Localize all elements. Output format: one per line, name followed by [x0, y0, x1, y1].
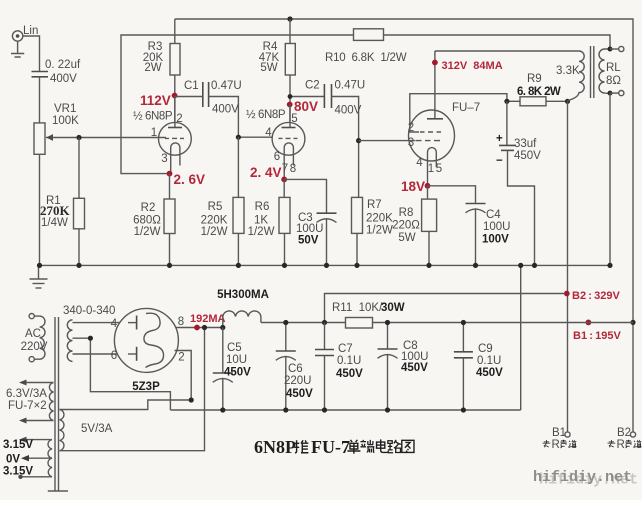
node dot R1 top — [76, 135, 81, 140]
svg-text:400V: 400V — [335, 105, 362, 117]
svg-text:R7: R7 — [367, 199, 382, 211]
svg-text:B1: B1 — [552, 427, 566, 439]
wire: jack to input capacitor — [23, 36, 40, 71]
svg-text:R2: R2 — [141, 202, 156, 214]
wire: C1 to V2 grid and R5 — [209, 97, 273, 138]
wire: V1 plate to C1 — [175, 96, 203, 98]
svg-text:hifidiy.net: hifidiy.net — [533, 469, 632, 486]
3.15V heater winding with 0V center tap — [3, 437, 52, 479]
svg-text:R11 10K/: R11 10K/ — [332, 302, 383, 314]
svg-text:8: 8 — [290, 163, 296, 175]
node dot R8 ground — [426, 263, 431, 268]
wire: 5Z3P pin 2 to 5V winding top — [60, 351, 192, 410]
main ground rail of amplifier section — [39, 264, 611, 266]
svg-text:0.1U: 0.1U — [477, 355, 501, 367]
svg-text:3.15V: 3.15V — [3, 439, 33, 451]
svg-text:Lin: Lin — [23, 25, 38, 37]
svg-text:2W: 2W — [144, 62, 161, 74]
node B2 329V — [564, 291, 570, 297]
svg-text:C7: C7 — [338, 343, 353, 355]
ground symbol under left end of ground rail — [30, 265, 48, 288]
capacitor C2 0.47U 400V — [305, 80, 365, 117]
rail A : B1 supply rail to preamp, corners down as right border — [175, 19, 633, 432]
svg-text:1: 1 — [428, 163, 434, 175]
svg-text:450V: 450V — [336, 368, 363, 380]
wire: HV center tap to PSU ground rail — [73, 338, 171, 410]
choke 5H300MA — [217, 289, 269, 328]
svg-text:C6: C6 — [288, 363, 303, 375]
svg-text:450V: 450V — [401, 362, 428, 374]
PSU ground rail — [170, 409, 520, 411]
HV secondary winding 340-0-340 — [63, 305, 115, 361]
wire: primary top lead from FU-7 plate — [435, 50, 579, 52]
svg-text:1/2W: 1/2W — [134, 226, 161, 238]
svg-text:+: + — [496, 133, 503, 145]
B1 rail with R11 — [261, 322, 633, 324]
svg-text:4: 4 — [416, 157, 423, 169]
svg-text:1/2W: 1/2W — [366, 225, 393, 237]
svg-text:4: 4 — [265, 127, 272, 139]
watermark hifidiy.net — [533, 469, 638, 489]
svg-text:C2: C2 — [305, 80, 320, 92]
rectifier 5Z3P — [111, 308, 185, 393]
svg-text:B2 : 329V: B2 : 329V — [572, 290, 620, 302]
wire: HV bottom to 5Z3P plate pin 6 — [73, 353, 118, 355]
svg-text:1/2W: 1/2W — [201, 226, 228, 238]
svg-text:33uf: 33uf — [514, 138, 537, 150]
svg-text:0.1U: 0.1U — [337, 355, 361, 367]
svg-text:220K: 220K — [201, 215, 228, 227]
svg-text:450V: 450V — [286, 388, 313, 400]
svg-text:270K: 270K — [40, 203, 71, 218]
svg-text:R8: R8 — [399, 207, 414, 219]
node dot R9 left / 33uf top — [504, 99, 509, 104]
wire: secondary bottom to ground rail — [609, 93, 611, 265]
wire: V2 plate to C2 — [290, 96, 324, 98]
wire: HV top to 5Z3P plate pin 4 — [73, 322, 121, 324]
svg-text:0. 22uf: 0. 22uf — [45, 59, 81, 71]
svg-text:112V: 112V — [140, 93, 171, 108]
node dot pin2 corner — [189, 397, 194, 402]
node dot R2 ground — [167, 263, 172, 268]
svg-text:R6: R6 — [255, 201, 270, 213]
node dot C3 ground — [324, 263, 329, 268]
svg-text:1/4W: 1/4W — [41, 217, 68, 229]
svg-text:312V 84MA: 312V 84MA — [442, 60, 503, 72]
svg-text:½ 6N8P: ½ 6N8P — [246, 109, 286, 121]
triode V1 half 6N8P — [133, 97, 191, 174]
svg-text:6.3V/3A: 6.3V/3A — [6, 388, 47, 400]
node dot C6 ground — [283, 407, 288, 412]
svg-text:340-0-340: 340-0-340 — [63, 305, 115, 317]
svg-text:5V/3A: 5V/3A — [81, 423, 113, 435]
wire: VR1 bottom to ground rail — [39, 154, 41, 265]
wire: 5V winding bottom to rectifier output — [60, 328, 205, 451]
svg-text:5Z3P: 5Z3P — [132, 381, 160, 393]
title: 6N8P push FU-7 single-ended circuit diagram — [254, 437, 414, 457]
resistor R3 20K 2W — [143, 19, 180, 122]
capacitor C1 0.47U 400V — [184, 80, 242, 116]
node 2.6V : V1 cathode — [167, 171, 173, 177]
output transformer core — [591, 46, 594, 98]
svg-text:C1: C1 — [184, 80, 199, 92]
5V/3A winding — [60, 410, 113, 451]
svg-text:680Ω: 680Ω — [133, 215, 161, 227]
terminal B2 to R channel — [608, 427, 642, 451]
svg-text:1/2W: 1/2W — [248, 226, 275, 238]
node dot 33uf ground — [532, 263, 537, 268]
svg-text:100U: 100U — [483, 221, 511, 233]
node dot R5 ground — [236, 263, 241, 268]
svg-text:2: 2 — [178, 352, 184, 364]
node 112V : V1 plate — [172, 93, 178, 99]
svg-text:450V: 450V — [224, 367, 251, 379]
power transformer core ground bar — [48, 490, 68, 492]
svg-text:6. 8K 2W: 6. 8K 2W — [517, 86, 561, 98]
node: rail A junction at R4 — [287, 16, 292, 21]
node dot C9 ground — [461, 407, 466, 412]
capacitor C7 0.1U 450V — [315, 323, 363, 411]
svg-text:B2: B2 — [617, 427, 631, 439]
svg-text:VR1: VR1 — [54, 103, 76, 115]
wire: C2 to FU-7 grid node — [332, 97, 359, 141]
svg-text:1: 1 — [151, 127, 157, 139]
node dot C5 ground — [220, 407, 225, 412]
svg-text:3.3K: 3.3K — [556, 65, 580, 77]
svg-text:400V: 400V — [212, 104, 239, 116]
resistor R6 1K 1/2W — [248, 179, 290, 265]
node dot FU-7 grid junction — [356, 138, 361, 143]
rail B : feedback line from output secondary to V1 cathode — [121, 35, 610, 174]
node dot secondary bottom — [608, 91, 613, 96]
node 2.4V : V2 cathode — [281, 177, 287, 183]
capacitor C9 0.1U 450V — [454, 323, 503, 411]
svg-text:1K: 1K — [254, 215, 268, 227]
svg-text:220K: 220K — [366, 213, 393, 225]
node dot ground rail right end — [607, 263, 612, 268]
node 18V : FU-7 cathode — [425, 183, 431, 189]
resistor R2 680ohm 1/2W — [133, 174, 175, 266]
node dot HV center tap — [88, 336, 93, 341]
node dot link down at ground rail — [518, 263, 523, 268]
node B1 195V on B1 rail — [586, 320, 592, 326]
svg-text:192MA: 192MA — [190, 313, 226, 325]
speaker terminal bottom — [610, 92, 619, 94]
node dot R1 ground — [76, 263, 81, 268]
wire: FU-7 screen pin2 to R9 — [410, 94, 507, 132]
potentiometer VR1 100K — [34, 103, 79, 154]
wire: B2 horizontal link from choke output — [325, 294, 566, 323]
node 312V 84MA : FU-7 plate — [432, 60, 438, 66]
wire: B2 feed down from R9/primary to B1 takeoff terminal — [567, 101, 569, 431]
node dot C4 ground — [473, 263, 478, 268]
svg-text:30W: 30W — [381, 302, 405, 314]
svg-text:C5: C5 — [227, 342, 242, 354]
node dot secondary top — [608, 47, 613, 52]
resistor R1 270K 1/4W — [40, 138, 85, 266]
svg-text:5H300MA: 5H300MA — [217, 289, 269, 301]
resistor R4 47K 5W — [259, 19, 296, 122]
svg-text:8Ω: 8Ω — [606, 75, 621, 87]
svg-text:220V: 220V — [21, 341, 48, 353]
svg-text:R: R — [552, 439, 560, 451]
wire: VR1 wiper to V1 grid pin 1 — [52, 137, 166, 139]
speaker terminal top — [610, 48, 619, 50]
node 80V : V2 plate — [287, 102, 293, 108]
capacitor C5 10U 450V — [213, 328, 251, 411]
resistor R9 6.8K 2W : screen feed — [507, 73, 568, 106]
svg-text:B1 : 195V: B1 : 195V — [573, 330, 621, 342]
node dot C7 ground — [322, 407, 327, 412]
svg-text:2: 2 — [176, 113, 182, 125]
svg-text:2. 4V: 2. 4V — [250, 165, 282, 180]
svg-text:3: 3 — [161, 153, 167, 165]
svg-text:220Ω: 220Ω — [392, 220, 420, 232]
svg-text:R9: R9 — [527, 73, 542, 85]
wire: down-link from main ground rail to PSU ground rail — [520, 265, 522, 410]
capacitor C8 100U 450V — [378, 323, 429, 411]
svg-text:2. 6V: 2. 6V — [174, 172, 206, 187]
node dot C1/R5/grid junction — [236, 135, 241, 140]
capacitor C4 100U 100V — [466, 204, 511, 266]
svg-text:C4: C4 — [486, 209, 501, 221]
node dot choke input / C5 top — [220, 325, 225, 330]
node dot B2 riser junction on B1 rail — [322, 320, 327, 325]
node 192MA red dot — [194, 325, 200, 331]
output transformer primary winding 3.3K — [556, 51, 584, 101]
node dot R7 ground — [354, 263, 359, 268]
capacitor C6 220U 450V — [276, 323, 313, 411]
svg-text:6: 6 — [111, 350, 117, 362]
svg-text:6N8P: 6N8P — [254, 437, 296, 457]
svg-text:80V: 80V — [294, 99, 318, 114]
svg-text:−: − — [496, 155, 503, 167]
svg-text:5W: 5W — [398, 232, 415, 244]
wire: 5Z3P pin 8 output to choke — [176, 327, 223, 329]
svg-text:C9: C9 — [478, 343, 493, 355]
svg-text:50V: 50V — [298, 235, 319, 247]
svg-text:400V: 400V — [50, 73, 77, 85]
svg-text:100U: 100U — [296, 223, 324, 235]
svg-text:AC: AC — [25, 328, 41, 340]
wire: V2 cathode to C3 — [284, 179, 326, 213]
svg-text:4: 4 — [111, 318, 118, 330]
svg-text:½ 6N8P: ½ 6N8P — [133, 111, 173, 123]
node dot R6 ground — [282, 263, 287, 268]
node dot C8 top — [385, 320, 390, 325]
svg-text:FU-7×2: FU-7×2 — [8, 400, 47, 412]
svg-text:0V: 0V — [6, 454, 20, 466]
triode V2 half 6N8P — [246, 105, 305, 180]
svg-text:18V: 18V — [401, 179, 425, 194]
svg-text:3.15V: 3.15V — [3, 466, 33, 478]
terminal B1 to R channel — [543, 427, 577, 451]
resistor R8 220ohm 5W — [392, 186, 436, 266]
node dot 5V return junction — [202, 325, 207, 330]
node dot R9 right / primary bottom / B2 line — [565, 99, 570, 104]
wire: input cap to VR1 — [39, 77, 41, 123]
resistor R11 10K/30W — [332, 302, 405, 328]
svg-text:0.47U: 0.47U — [335, 80, 366, 92]
svg-text:100V: 100V — [482, 234, 509, 246]
svg-text:RL: RL — [606, 62, 621, 74]
pentode FU-7 — [408, 51, 480, 186]
node dot VR1 ground — [37, 263, 42, 268]
svg-text:6: 6 — [274, 151, 280, 163]
svg-text:R: R — [617, 439, 625, 451]
node dot C8 ground — [385, 407, 390, 412]
svg-text:7: 7 — [282, 163, 288, 175]
svg-text:450V: 450V — [514, 150, 541, 162]
svg-text:5: 5 — [436, 163, 442, 175]
wire: FU-7 grid pin3 to grid node — [359, 140, 415, 142]
wire: cathode to C4 — [428, 186, 476, 204]
resistor R7 220K 1/2W — [352, 141, 394, 266]
node dot B1 rail to right border — [630, 320, 635, 325]
svg-text:450V: 450V — [476, 367, 503, 379]
svg-text:FU–7: FU–7 — [452, 102, 480, 114]
svg-text:5W: 5W — [260, 62, 277, 74]
node dot V2 plate / C2 takeoff — [288, 94, 293, 99]
resistor R5 220K 1/2W — [201, 137, 244, 265]
input jack Lin — [11, 25, 38, 57]
capacitor C3 100U 50V — [296, 212, 337, 265]
svg-text:FU-7: FU-7 — [311, 437, 350, 457]
output transformer secondary winding — [599, 49, 621, 93]
svg-text:8: 8 — [178, 316, 184, 328]
svg-text:100K: 100K — [52, 115, 79, 127]
svg-text:R10 6.8K 1/2W: R10 6.8K 1/2W — [325, 52, 407, 64]
node dot C9 top — [461, 320, 466, 325]
svg-text:R5: R5 — [208, 201, 223, 213]
6.3V/3A heater winding — [6, 380, 54, 424]
svg-text:3: 3 — [408, 137, 414, 149]
svg-text:0.47U: 0.47U — [211, 80, 242, 92]
AC 220V primary winding — [21, 314, 48, 362]
svg-text:220U: 220U — [284, 375, 312, 387]
svg-text:10U: 10U — [226, 354, 247, 366]
svg-text:5: 5 — [291, 113, 297, 125]
resistor R10 6.8K 1/2W : feedback resistor in rail B — [325, 29, 407, 64]
capacitor 33uf 450V : screen decoupling — [496, 101, 541, 265]
capacitor 0.22uf 400V — [32, 59, 81, 85]
power transformer core — [55, 317, 59, 491]
node dot C6 top — [283, 320, 288, 325]
